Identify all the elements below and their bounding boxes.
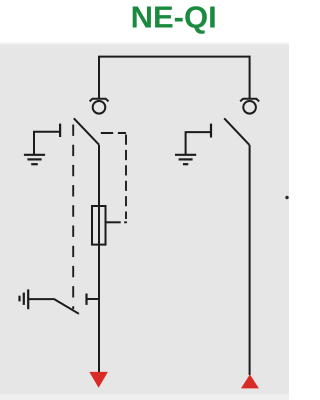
wire: left branch main conductor [98,145,100,373]
wire: earthing contact to main conductor [87,298,101,300]
ground (upper left) [24,155,45,164]
wire: top bus with drops to both terminals [99,57,250,99]
mechanical linkage (dashed, to fuse side tap) [101,133,127,222]
wire: fuse side tap [106,221,121,223]
mechanical linkage (dashed, blade tip to earthing blade) [72,125,74,310]
disconnector blade (right, open) [224,118,249,145]
wire: right branch main conductor [249,145,251,375]
wire: earthing switch lead from ground [28,298,53,300]
terminal bushing circle (left) [93,101,106,114]
earthing switch fixed contact bar [85,294,87,305]
terminal arrow (right, red, up) [241,374,259,388]
earthing switch blade (open) [53,299,79,314]
disconnector blade (left, open) [74,118,99,144]
fuse F (left branch) [92,206,106,245]
title NE-QI [131,0,217,35]
svg-text:NE-QI: NE-QI [131,0,217,35]
wire: upper-left ground lead [34,132,60,155]
terminal arrow (left, red, down) [89,372,108,388]
fixed contact bar of right ground [210,124,212,138]
terminal contact saddle (right) [240,99,259,102]
terminal contact saddle (left) [90,99,109,102]
stray dot at right edge [285,196,288,199]
wire: right ground lead [186,132,211,154]
fixed contact bar of upper-left ground [59,124,61,137]
ground (lower left, rotated) [20,289,29,309]
terminal bushing circle (right) [243,101,256,114]
ground (right) [175,155,196,164]
